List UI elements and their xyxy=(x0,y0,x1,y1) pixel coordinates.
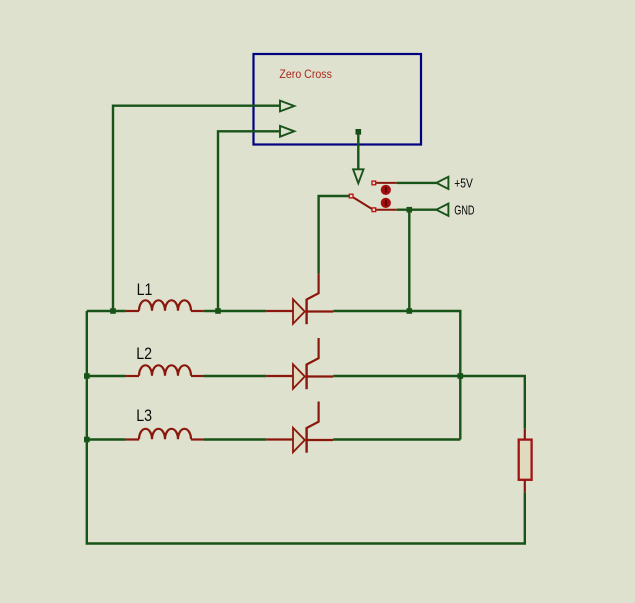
terminal GND xyxy=(436,204,448,216)
wire row1 right xyxy=(333,311,460,440)
pin arrow output (down) xyxy=(353,169,363,183)
svg-text:L1: L1 xyxy=(137,280,153,299)
inductor L2 xyxy=(126,365,204,376)
switch lead bottom xyxy=(376,209,397,211)
svg-text:GND: GND xyxy=(454,202,474,217)
switch actuator dot lower xyxy=(381,198,391,208)
wire to +5V terminal xyxy=(397,182,437,184)
junction left rail row2 xyxy=(84,373,90,379)
terminal +5V xyxy=(436,177,448,189)
junction left rail row3 xyxy=(84,437,90,443)
inductor L3 xyxy=(126,429,204,440)
svg-text:+5V: +5V xyxy=(454,177,473,191)
junction right rail row2 xyxy=(458,373,464,379)
wire net B (to box input 2) xyxy=(218,131,280,311)
wire L3 to triac3 xyxy=(204,438,267,440)
inductor L1 xyxy=(126,300,204,311)
wire net A (to box input 1) xyxy=(113,106,280,311)
wire L1 to triac1 xyxy=(204,310,267,312)
svg-text:L3: L3 xyxy=(136,406,152,425)
triac U3 xyxy=(266,402,333,453)
row1: wire rail to L1 xyxy=(87,310,126,312)
switch lead top xyxy=(376,182,397,184)
row2: wire rail to L2 xyxy=(87,375,126,377)
row3: wire rail to L3 xyxy=(87,438,126,440)
left rail wire xyxy=(87,311,525,544)
switch actuator dot upper xyxy=(381,185,391,195)
junction row1 gnd-net xyxy=(407,308,413,314)
wire box output down xyxy=(357,132,359,169)
junction row1 netA xyxy=(110,308,116,314)
svg-text:L2: L2 xyxy=(136,344,152,363)
pin arrow input 2 xyxy=(280,126,294,137)
switch SW1 pole contact xyxy=(349,194,353,198)
pin arrow input 1 xyxy=(280,101,294,112)
switch SW1 lever xyxy=(353,198,371,209)
triac U2 xyxy=(266,338,333,389)
wire GND down to row1 xyxy=(408,210,410,311)
subcircuit box Zero Cross xyxy=(254,54,422,145)
switch SW1 throw contact top xyxy=(372,181,376,185)
junction GND wire xyxy=(407,207,413,213)
switch SW1 throw contact bottom xyxy=(372,208,376,212)
wire switch pole to triac gate xyxy=(319,196,349,274)
wire to GND terminal xyxy=(397,208,437,210)
svg-text:Zero Cross: Zero Cross xyxy=(279,67,332,81)
wire row3 right xyxy=(333,438,460,440)
wire L2 to triac2 xyxy=(204,375,267,377)
junction row1 netB xyxy=(215,308,221,314)
junction inside box xyxy=(356,129,362,135)
resistor R1 xyxy=(519,429,532,492)
wire row2 right to resistor xyxy=(333,376,525,429)
triac U1 xyxy=(266,274,333,325)
